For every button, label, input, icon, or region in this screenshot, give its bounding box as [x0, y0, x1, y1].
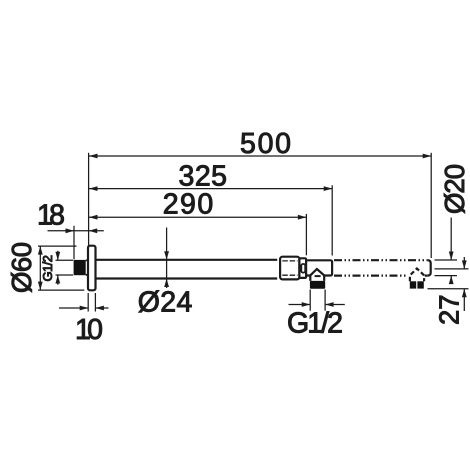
dim 27 extension lines [428, 269, 469, 289]
phantom tube top dash-dot [334, 259, 427, 261]
wall thread G1/2 block [74, 260, 86, 275]
dim Ø60 arrows [38, 246, 43, 255]
phantom tube bottom dash-dot [334, 275, 427, 277]
outlet thread G1/2 black band [310, 281, 325, 289]
dim 18 line [48, 230, 104, 232]
dim Ø60 extension top [38, 245, 77, 247]
dim G1/2 mid line and arrows [289, 304, 345, 306]
dim 290 line [89, 216, 306, 218]
dim G1/2 left arrows [55, 252, 60, 261]
dim 325 arrows [89, 186, 98, 191]
svg-text:325: 325 [179, 160, 228, 192]
dim Ø20 extension lines [435, 260, 458, 276]
extension line left (wall flange face) [88, 153, 90, 246]
svg-text:Ø24: Ø24 [138, 287, 193, 319]
dim Ø20 arrows [449, 252, 454, 261]
svg-text:27: 27 [433, 294, 464, 325]
svg-text:Ø60: Ø60 [6, 242, 37, 293]
dim 325 line [89, 188, 332, 190]
dim G1/2 mid extension lines [310, 290, 325, 311]
dim G1/2 left shafts [57, 251, 59, 285]
dim Ø60 line [39, 246, 41, 290]
svg-text:G1/2: G1/2 [40, 255, 55, 282]
arm tube Ø24 [95, 260, 277, 279]
dim 500 line [89, 155, 431, 157]
svg-text:500: 500 [240, 128, 291, 160]
phantom outlet thread square right [417, 281, 423, 288]
dim 500 arrows [89, 154, 98, 159]
dim 27 shafts [463, 257, 465, 311]
dim G1/2 left tick top [56, 259, 74, 261]
phantom outlet thread square left [410, 281, 416, 288]
dim 10 extension lines [88, 293, 95, 312]
svg-text:Ø20: Ø20 [439, 164, 470, 214]
dim Ø60 extension bottom [38, 289, 84, 291]
extension line wall plane x74 [73, 226, 75, 259]
dim 27 arrows [462, 260, 467, 269]
extension line 500 end [430, 153, 432, 258]
nut knurl lines [282, 261, 297, 275]
svg-text:G1/2: G1/2 [287, 308, 343, 340]
dim G1/2 left tick bottom [56, 274, 74, 276]
neck between thread and flange [86, 260, 88, 274]
outlet stub pentagon [310, 269, 324, 281]
dim Ø24 shaft [166, 228, 168, 289]
nut collar [299, 258, 306, 278]
outlet internal line [315, 275, 321, 277]
svg-text:290: 290 [163, 189, 214, 221]
collar notch [301, 264, 305, 273]
tube end cap [427, 260, 430, 275]
dim Ø24 arrows [164, 251, 169, 259]
dim 10 line and arrows [59, 307, 109, 309]
coupling nut [280, 257, 299, 280]
extension line 290 end [305, 214, 307, 255]
phantom outlet dashed pentagon [410, 269, 424, 282]
svg-text:10: 10 [75, 314, 103, 346]
extension line 325 end [331, 185, 333, 255]
dim 18 arrows [66, 228, 75, 233]
dim 290 arrows [89, 215, 98, 220]
dim Ø20 shafts [450, 218, 452, 285]
flange escutcheon [88, 246, 96, 291]
svg-text:18: 18 [37, 199, 65, 231]
connector body [306, 260, 332, 275]
